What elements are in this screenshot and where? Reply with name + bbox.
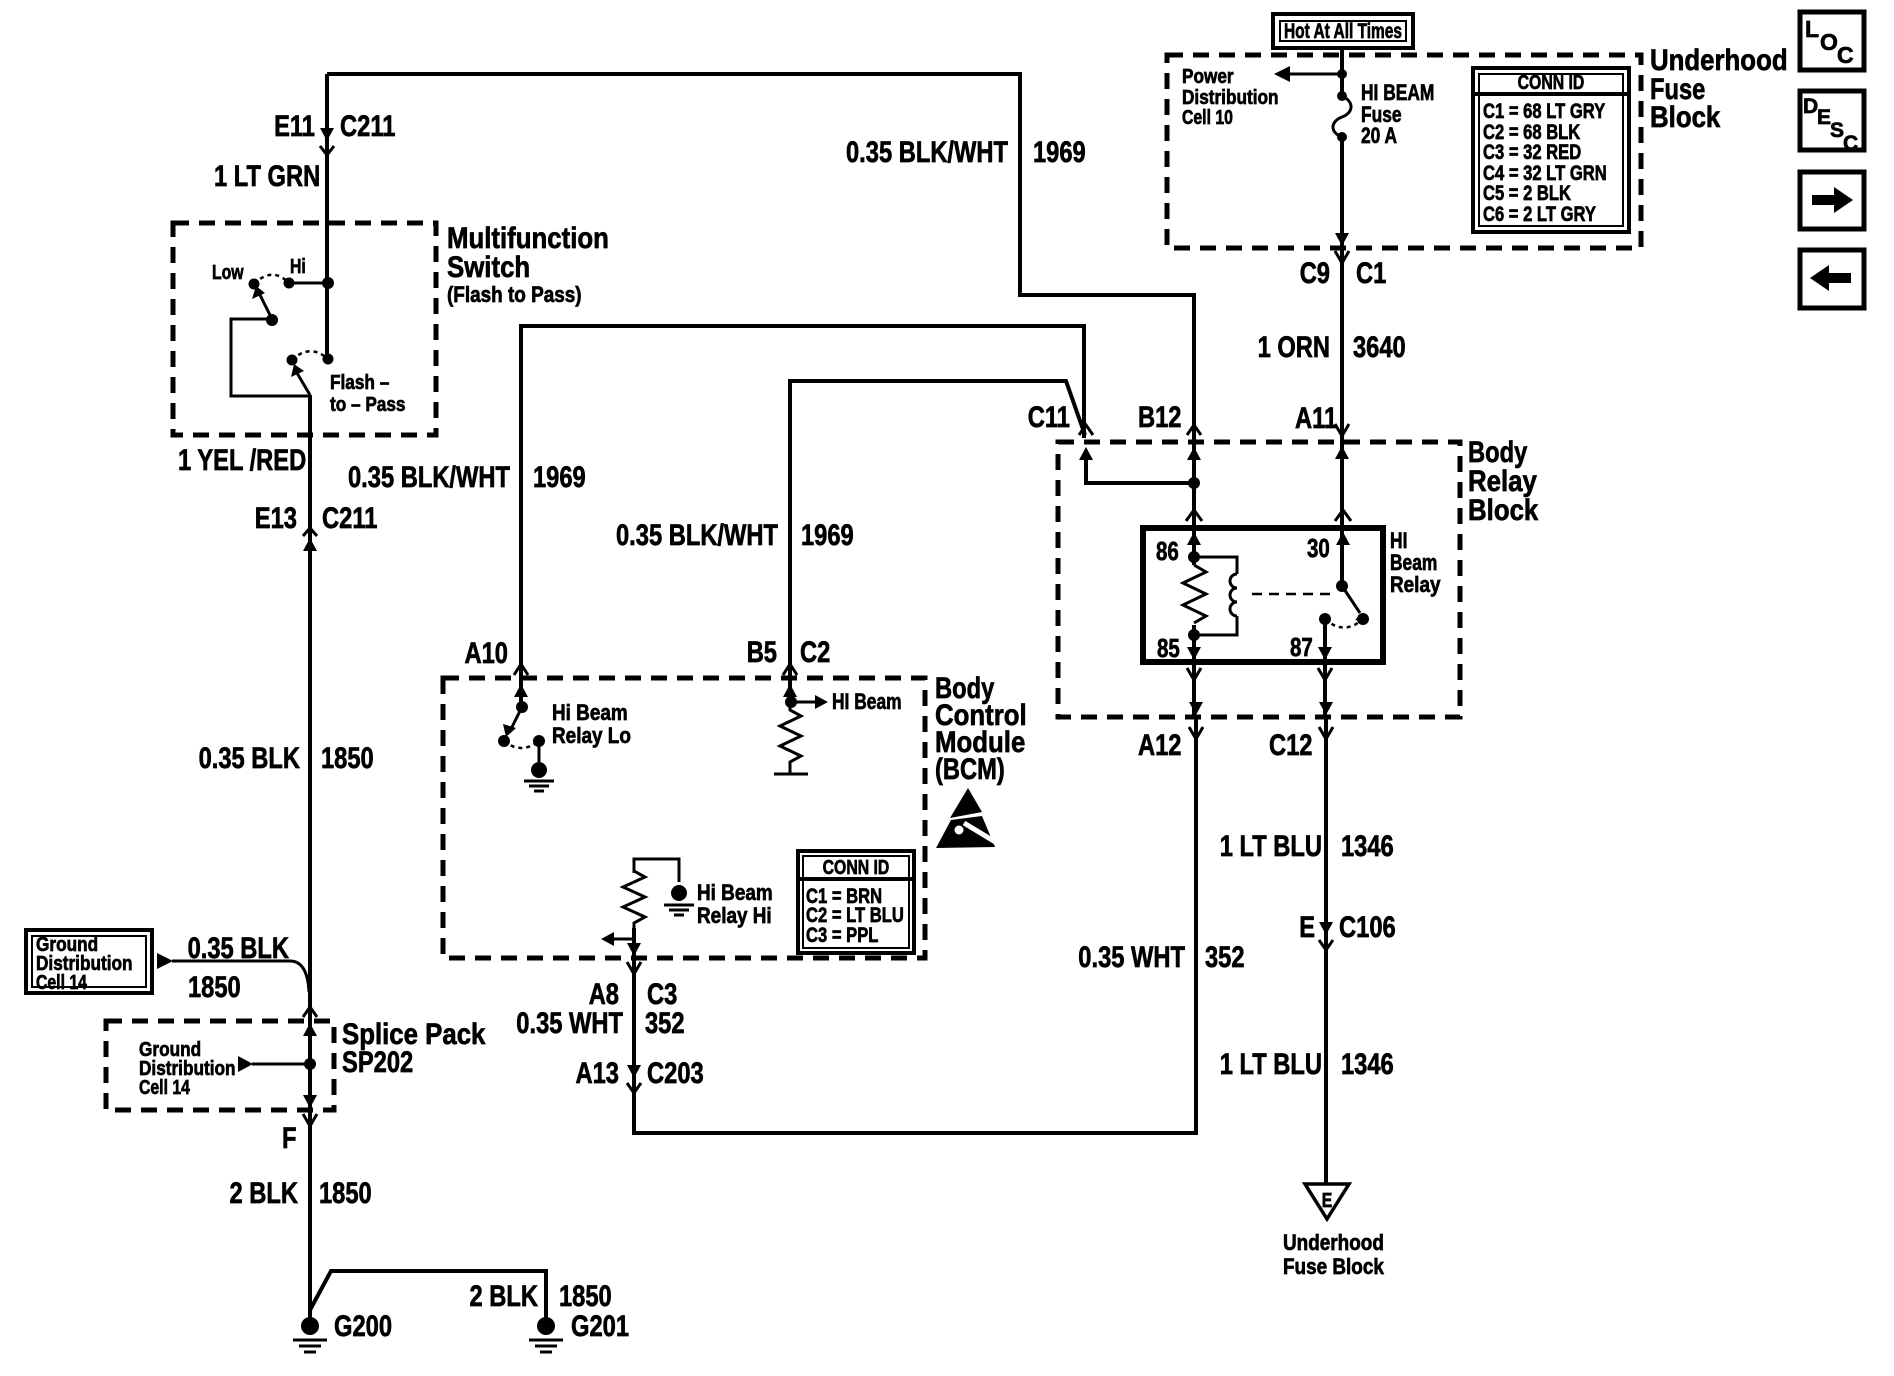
svg-text:352: 352 <box>645 1007 685 1040</box>
svg-text:C5 = 2 BLK: C5 = 2 BLK <box>1483 182 1571 205</box>
svg-text:Underhood: Underhood <box>1283 1230 1384 1255</box>
svg-text:B12: B12 <box>1138 401 1182 434</box>
svg-text:1969: 1969 <box>801 519 854 552</box>
svg-text:Block: Block <box>1468 494 1539 527</box>
svg-text:C211: C211 <box>322 502 377 535</box>
svg-text:Fuse Block: Fuse Block <box>1283 1254 1385 1279</box>
svg-text:0.35 WHT: 0.35 WHT <box>516 1007 623 1040</box>
svg-text:C9: C9 <box>1300 257 1330 290</box>
svg-text:C211: C211 <box>340 110 395 143</box>
svg-text:30: 30 <box>1307 533 1330 563</box>
svg-text:1850: 1850 <box>319 1177 372 1210</box>
svg-text:1346: 1346 <box>1341 830 1394 863</box>
svg-text:Hi Beam: Hi Beam <box>697 880 773 905</box>
svg-text:352: 352 <box>1205 941 1245 974</box>
svg-text:A12: A12 <box>1138 729 1182 762</box>
svg-text:C2: C2 <box>800 636 830 669</box>
svg-text:G201: G201 <box>571 1310 629 1343</box>
svg-text:Flash –: Flash – <box>330 372 389 394</box>
svg-text:Hot At All Times: Hot At All Times <box>1284 20 1402 43</box>
svg-text:(Flash to Pass): (Flash to Pass) <box>447 282 582 307</box>
svg-text:C11: C11 <box>1028 401 1070 434</box>
svg-text:1 ORN: 1 ORN <box>1258 331 1330 364</box>
svg-text:Cell 14: Cell 14 <box>139 1077 191 1099</box>
svg-text:2 BLK: 2 BLK <box>470 1280 539 1313</box>
svg-text:0.35 BLK/WHT: 0.35 BLK/WHT <box>846 136 1008 169</box>
svg-text:87: 87 <box>1290 632 1313 662</box>
svg-text:Power: Power <box>1182 66 1234 88</box>
svg-text:Relay Hi: Relay Hi <box>697 903 772 928</box>
svg-text:C: C <box>1837 42 1854 68</box>
svg-text:C1 = 68 LT GRY: C1 = 68 LT GRY <box>1483 100 1605 123</box>
svg-text:Switch: Switch <box>447 251 530 284</box>
svg-text:C1: C1 <box>1356 257 1386 290</box>
svg-text:L: L <box>1805 16 1819 42</box>
svg-text:Cell 14: Cell 14 <box>36 972 88 994</box>
svg-text:D: D <box>1803 95 1818 118</box>
svg-text:B5: B5 <box>747 636 777 669</box>
svg-text:CONN ID: CONN ID <box>1518 72 1585 94</box>
svg-text:A13: A13 <box>576 1057 620 1090</box>
svg-text:20 A: 20 A <box>1361 123 1397 148</box>
svg-text:Hi: Hi <box>290 256 306 278</box>
svg-text:85: 85 <box>1157 633 1180 663</box>
svg-text:to – Pass: to – Pass <box>330 394 406 416</box>
svg-text:C: C <box>1843 132 1858 155</box>
svg-text:E11: E11 <box>274 110 315 143</box>
svg-text:0.35 WHT: 0.35 WHT <box>1078 941 1185 974</box>
svg-text:1850: 1850 <box>188 971 241 1004</box>
svg-text:C6 = 2 LT GRY: C6 = 2 LT GRY <box>1483 203 1596 226</box>
svg-text:0.35 BLK: 0.35 BLK <box>188 932 290 965</box>
svg-text:1969: 1969 <box>1033 136 1086 169</box>
svg-text:G200: G200 <box>334 1310 392 1343</box>
svg-text:E13: E13 <box>255 502 297 535</box>
svg-text:0.35 BLK/WHT: 0.35 BLK/WHT <box>348 461 510 494</box>
svg-text:C12: C12 <box>1269 729 1313 762</box>
svg-text:1969: 1969 <box>533 461 586 494</box>
svg-text:2 BLK: 2 BLK <box>230 1177 299 1210</box>
svg-text:E: E <box>1817 106 1831 129</box>
svg-text:Low: Low <box>212 262 244 284</box>
svg-text:3640: 3640 <box>1353 331 1406 364</box>
svg-text:1850: 1850 <box>321 742 374 775</box>
svg-text:S: S <box>1830 119 1844 142</box>
svg-text:CONN ID: CONN ID <box>823 857 890 879</box>
svg-text:86: 86 <box>1156 536 1179 566</box>
svg-text:E: E <box>1299 911 1315 944</box>
svg-text:Relay: Relay <box>1390 572 1441 597</box>
svg-text:C3 = PPL: C3 = PPL <box>806 924 879 947</box>
svg-text:Relay Lo: Relay Lo <box>552 723 631 748</box>
svg-text:(BCM): (BCM) <box>935 753 1005 786</box>
svg-text:HI Beam: HI Beam <box>832 689 902 714</box>
svg-text:Block: Block <box>1650 101 1721 134</box>
svg-text:O: O <box>1820 29 1838 55</box>
svg-text:C106: C106 <box>1339 911 1396 944</box>
svg-text:Distribution: Distribution <box>1182 87 1279 109</box>
svg-text:0.35 BLK: 0.35 BLK <box>199 742 301 775</box>
svg-text:C3 = 32 RED: C3 = 32 RED <box>1483 141 1581 164</box>
svg-text:Cell 10: Cell 10 <box>1182 107 1233 129</box>
svg-text:A11: A11 <box>1295 402 1337 435</box>
svg-text:Hi Beam: Hi Beam <box>552 700 628 725</box>
svg-text:C203: C203 <box>647 1057 704 1090</box>
svg-text:1850: 1850 <box>559 1280 612 1313</box>
svg-text:E: E <box>1322 1190 1333 1212</box>
svg-text:F: F <box>282 1122 297 1155</box>
svg-text:A10: A10 <box>465 637 509 670</box>
svg-text:0.35 BLK/WHT: 0.35 BLK/WHT <box>616 519 778 552</box>
svg-text:1346: 1346 <box>1341 1048 1394 1081</box>
svg-text:1 LT BLU: 1 LT BLU <box>1220 1048 1322 1081</box>
svg-text:1 YEL /RED: 1 YEL /RED <box>178 444 306 477</box>
svg-text:SP202: SP202 <box>342 1046 413 1079</box>
svg-text:1 LT BLU: 1 LT BLU <box>1220 830 1322 863</box>
svg-text:1 LT GRN: 1 LT GRN <box>214 160 320 193</box>
